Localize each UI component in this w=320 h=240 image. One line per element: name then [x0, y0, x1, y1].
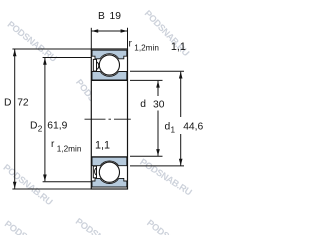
ball top — [99, 55, 119, 75]
svg-text:d: d — [140, 99, 146, 110]
d arrow down — [156, 149, 160, 156]
D2 arrow up — [43, 58, 47, 65]
d1 arrow up — [179, 72, 183, 79]
d extension bottom — [130, 155, 163, 157]
B dimension line — [91, 30, 127, 32]
svg-text:1,2min: 1,2min — [134, 44, 159, 53]
watermark G bottom edge mid — [74, 216, 128, 240]
d1 dimension line upper part — [180, 72, 182, 117]
D dimension line — [14, 49, 16, 188]
svg-text:1,1: 1,1 — [171, 41, 186, 53]
svg-text:1,2min: 1,2min — [57, 145, 82, 154]
d1 extension bottom — [130, 165, 184, 167]
centerline axis — [85, 118, 131, 120]
watermark E bottom-left — [1, 162, 54, 207]
shield Z bottom-left — [93, 166, 97, 178]
D arrow up — [13, 49, 17, 56]
d dimension line upper part — [157, 81, 159, 96]
svg-text:B: B — [98, 11, 105, 22]
d extension top — [130, 79, 163, 81]
svg-text:72: 72 — [17, 98, 29, 109]
watermark D bottom-right — [138, 157, 194, 198]
D2 extension top — [43, 57, 92, 59]
D2 extension bottom — [43, 181, 92, 183]
B arrow left — [92, 29, 99, 33]
B extension line left — [90, 28, 92, 49]
D extension bottom — [12, 188, 91, 190]
watermark A top-left — [5, 19, 59, 64]
watermark B top-right — [143, 8, 192, 58]
D extension top — [12, 48, 91, 50]
d1 dimension line lower part — [180, 134, 182, 166]
d1 arrow down — [179, 159, 183, 166]
watermark F bottom edge left — [3, 219, 57, 240]
B extension line right — [127, 28, 129, 49]
D arrow down — [13, 182, 17, 189]
inner ring bottom section — [92, 157, 127, 166]
watermark H bottom edge right — [145, 218, 199, 240]
svg-text:44,6: 44,6 — [183, 122, 203, 133]
svg-text:D: D — [4, 98, 11, 109]
svg-text:D: D — [30, 121, 37, 132]
svg-text:2: 2 — [38, 125, 43, 134]
svg-text:1,1: 1,1 — [95, 139, 110, 151]
svg-text:30: 30 — [153, 99, 165, 110]
D2 dimension line — [44, 58, 46, 181]
bore line bottom section — [91, 156, 127, 158]
shield Z top-left — [93, 59, 98, 71]
outer ring top section — [92, 50, 127, 59]
outer ring bottom section — [92, 178, 127, 187]
d1 extension top — [130, 70, 184, 72]
bearing outline rectangle — [91, 49, 127, 189]
d dimension line lower part — [157, 111, 159, 156]
bore line top section — [91, 79, 127, 81]
watermark C center-left — [74, 77, 119, 131]
ball bottom — [99, 162, 119, 182]
svg-text:1: 1 — [171, 126, 176, 135]
svg-text:61,9: 61,9 — [47, 121, 67, 132]
inner ring top section — [92, 72, 127, 81]
B arrow right — [121, 29, 128, 33]
svg-text:19: 19 — [110, 11, 122, 22]
d arrow up — [156, 81, 160, 88]
D2 arrow down — [43, 175, 47, 182]
